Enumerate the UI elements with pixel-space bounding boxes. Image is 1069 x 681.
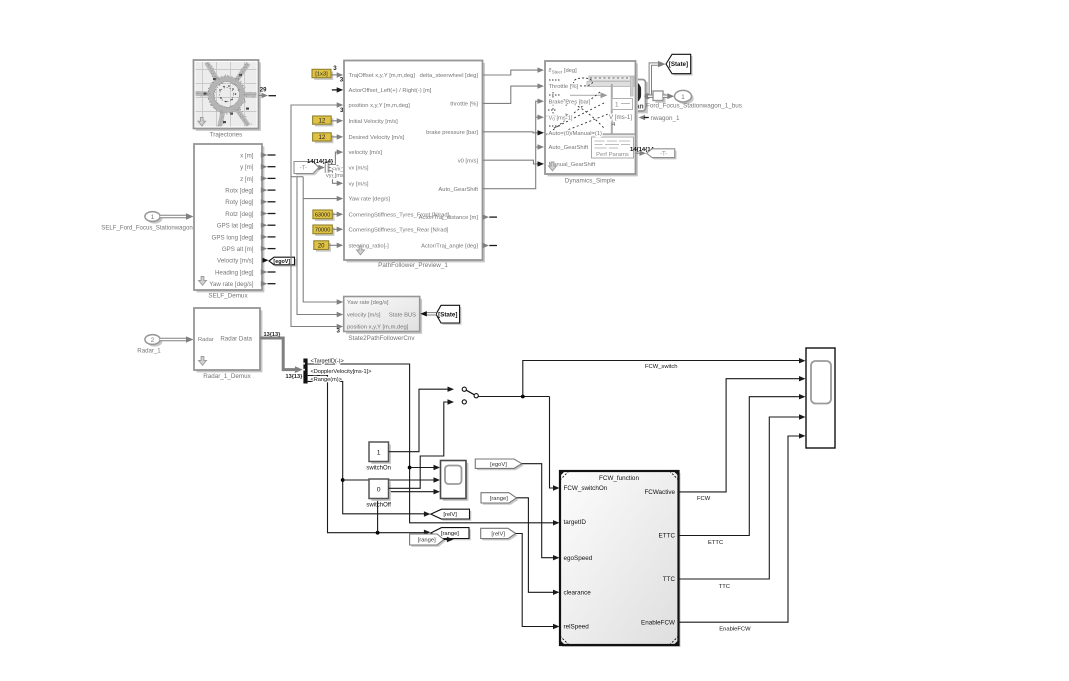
svg-text:clearance: clearance	[564, 590, 592, 597]
constant switchOff value 0	[371, 481, 391, 501]
junction TargetID to small scope	[408, 466, 412, 470]
small scope block	[443, 463, 469, 501]
Dynamics embedded legend box 1	[612, 99, 633, 110]
svg-text:SELF_Ford_Focus_Stationwagon: SELF_Ford_Focus_Stationwagon	[101, 225, 192, 232]
junction DopplerVelocity branch to small scope input 3	[376, 531, 380, 535]
svg-text:12: 12	[318, 117, 326, 124]
svg-text:GPS long [deg]: GPS long [deg]	[212, 234, 254, 241]
inport 2 Radar_1	[147, 337, 162, 347]
block Trajectories	[196, 62, 261, 130]
svg-text:Yaw rate [deg/s]: Yaw rate [deg/s]	[349, 197, 391, 203]
bus wire junction to conversion block	[648, 94, 653, 97]
svg-text:TrajOffset x,y,Y [m,m,deg]: TrajOffset x,y,Y [m,m,deg]	[349, 73, 416, 79]
wire FCW_switch to big scope input 1	[523, 361, 800, 397]
svg-text:[State]: [State]	[669, 61, 688, 68]
Dynamics embedded plot image	[587, 76, 634, 96]
svg-text:V [ms-1]: V [ms-1]	[609, 114, 632, 121]
svg-text:EnableFCW: EnableFCW	[641, 619, 675, 626]
svg-text:1: 1	[681, 94, 685, 101]
svg-text:GPS alt [m]: GPS alt [m]	[222, 246, 254, 253]
wire brake pressure to Dynamics	[483, 132, 539, 133]
svg-text:Desired Velocity [m/s]: Desired Velocity [m/s]	[349, 135, 405, 141]
constant 12 desired velocity	[315, 135, 334, 143]
svg-text:egoSpeed: egoSpeed	[564, 555, 593, 562]
dangling output Actor/Traj_distance	[482, 216, 485, 218]
bus wire Ford block to junction	[646, 64, 663, 96]
bus selector output DopplerVelocity wire	[308, 376, 425, 533]
svg-text:<Range(m)>: <Range(m)>	[311, 377, 342, 383]
constant 63000	[315, 212, 334, 221]
bus selector output Range wire	[308, 381, 425, 513]
svg-text:[relV]: [relV]	[443, 512, 457, 518]
wire throttle to Dynamics	[483, 86, 539, 103]
svg-text:Yaw rate [deg/s]: Yaw rate [deg/s]	[347, 300, 389, 306]
svg-text:Radar_1: Radar_1	[137, 348, 161, 355]
svg-text:Dynamics_Simple: Dynamics_Simple	[565, 178, 616, 185]
block Ford_Focus_Stationwagon_1 (partially hidden)	[602, 82, 648, 114]
junction Range branch to small scope input 2	[341, 478, 345, 482]
demux out to velocity input	[328, 152, 337, 164]
svg-text:Actor/Traj_distance [m]: Actor/Traj_distance [m]	[419, 215, 479, 221]
svg-text:1: 1	[151, 214, 155, 221]
svg-text:Velocity [m/s]: Velocity [m/s]	[217, 258, 254, 265]
block PathFollower_Preview_1	[346, 63, 485, 263]
svg-text:Initial Velocity [m/s]: Initial Velocity [m/s]	[349, 119, 399, 125]
signal conversion block	[655, 93, 665, 103]
svg-text:Auto_GearShift: Auto_GearShift	[438, 187, 478, 193]
bus wire State from-tag to State BUS input	[426, 312, 436, 315]
svg-text:[egoV]: [egoV]	[490, 462, 507, 468]
svg-text:1: 1	[377, 449, 381, 456]
wire Auto_GearShift to Dynamics	[483, 101, 539, 189]
svg-text:Actor/Traj_angle [deg]: Actor/Traj_angle [deg]	[421, 244, 478, 250]
constant 20	[316, 243, 331, 252]
Ford block flipped input dangling	[639, 115, 646, 120]
goto tag -T- right	[648, 151, 676, 160]
svg-text:12: 12	[318, 134, 326, 141]
svg-text:70000: 70000	[315, 227, 331, 233]
svg-text:ETTC: ETTC	[659, 533, 676, 540]
svg-text:Yaw rate [deg/s]: Yaw rate [deg/s]	[209, 281, 254, 288]
svg-text:targetID: targetID	[564, 519, 587, 526]
svg-text:Trajectories: Trajectories	[210, 132, 243, 139]
wire v0 to Dynamics	[483, 160, 539, 164]
wire FCWactive to scope, label FCW	[679, 379, 800, 492]
wire position x,y,Y to PathFollower and State2PathFollowerCnv	[291, 105, 338, 327]
constant switchOn value 1	[371, 444, 391, 464]
svg-text:v0 [m/s]: v0 [m/s]	[458, 158, 479, 164]
svg-text:GPS lat [deg]: GPS lat [deg]	[217, 223, 254, 230]
wire switch output	[478, 396, 549, 398]
bus selector bar	[303, 359, 307, 384]
FCW corner folds	[560, 471, 565, 476]
junction bus	[644, 93, 650, 99]
dangling wire ActorOffset	[332, 89, 338, 91]
svg-text:14{14{14}: 14{14{14}	[307, 159, 334, 165]
block Dynamics_Simple	[547, 63, 638, 176]
svg-text:δSteer [deg]: δSteer [deg]	[549, 68, 578, 74]
block SELF_Demux	[196, 146, 264, 292]
svg-text:<DopplerVelocity[ms-1]>: <DopplerVelocity[ms-1]>	[311, 369, 372, 375]
constant 70000	[315, 227, 334, 236]
svg-text:FCW_function: FCW_function	[599, 475, 639, 482]
svg-text:<TargetID(-)>: <TargetID(-)>	[311, 359, 344, 365]
svg-text:20: 20	[318, 243, 325, 249]
bus wire Radar Data to Bus Selector, dim 13{13}	[260, 338, 298, 370]
manual switch	[462, 387, 466, 391]
wire branch horizontal	[291, 176, 303, 178]
svg-text:Perf Params: Perf Params	[596, 152, 629, 158]
svg-text:position x,y,Y [m,m,deg]: position x,y,Y [m,m,deg]	[349, 103, 411, 109]
from tag egoV	[477, 461, 523, 470]
svg-text:Radar: Radar	[198, 337, 214, 343]
dangling arrow from range tag	[444, 539, 448, 541]
bus wire inport2 to Radar_1_Demux	[160, 338, 188, 341]
svg-text:Auto_GearShift: Auto_GearShift	[549, 145, 589, 151]
svg-text:nwagon_1: nwagon_1	[651, 115, 681, 122]
svg-text:PathFollower_Preview_1: PathFollower_Preview_1	[378, 262, 448, 269]
constant [1x3]	[314, 72, 333, 80]
svg-text:steering_ratio[-]: steering_ratio[-]	[349, 243, 390, 249]
svg-text:1: 1	[615, 101, 619, 108]
svg-text:ActorOffset_Left(+) / Right(-): ActorOffset_Left(+) / Right(-) [m]	[349, 88, 432, 94]
wire TTC to scope	[679, 417, 800, 579]
bus wire inport1 to SELF_Demux	[160, 215, 188, 218]
svg-text:Rotx [deg]: Rotx [deg]	[225, 188, 253, 195]
svg-text:2: 2	[151, 337, 155, 344]
svg-text:-T-: -T-	[300, 166, 307, 172]
svg-text:Throttle [%]: Throttle [%]	[549, 84, 579, 90]
wire relV to FCW relSpeed	[516, 534, 554, 627]
svg-text:V0 [ms-1]: V0 [ms-1]	[549, 115, 573, 121]
svg-text:EnableFCW: EnableFCW	[719, 627, 751, 633]
block FCW_function	[562, 473, 681, 647]
svg-text:Radar_1_Demux: Radar_1_Demux	[203, 373, 251, 380]
svg-text:13{13}: 13{13}	[264, 332, 282, 338]
big scope block	[806, 348, 835, 448]
block State2PathFollowerCnv	[346, 299, 422, 334]
svg-text:State BUS: State BUS	[389, 313, 416, 319]
svg-text:ETTC: ETTC	[708, 540, 723, 546]
wire switchOff to manual switch	[389, 402, 448, 488]
demux small	[327, 164, 330, 175]
svg-text:Ford_Focus_Stationwagon_1_bus: Ford_Focus_Stationwagon_1_bus	[646, 103, 742, 110]
wire delta_steerwheel to Dynamics	[483, 70, 539, 75]
goto tag range	[433, 529, 471, 540]
svg-text:[egoV]: [egoV]	[273, 259, 290, 265]
junction switch output	[521, 395, 525, 399]
svg-text:[range]: [range]	[441, 531, 459, 537]
svg-text:throttle [%]: throttle [%]	[450, 102, 478, 108]
svg-text:13{13}: 13{13}	[286, 374, 304, 380]
svg-text:TTC: TTC	[719, 584, 730, 590]
svg-text:3: 3	[333, 65, 337, 72]
demux out to vx input	[328, 167, 337, 169]
wire Dynamics to goto -T-	[636, 152, 641, 154]
svg-text:-T-: -T-	[660, 151, 667, 157]
svg-text:State2PathFollowerCnv: State2PathFollowerCnv	[348, 335, 415, 342]
wire switchOn to manual switch	[389, 389, 448, 452]
from tag range upper	[483, 495, 519, 505]
svg-text:FCW: FCW	[697, 496, 711, 502]
svg-text:Radar Data: Radar Data	[220, 335, 252, 342]
svg-text:TTC: TTC	[663, 576, 676, 583]
outport 1 Ford_Focus_Stationwagon_1_bus	[677, 93, 694, 105]
SELF_Demux output stubs	[262, 154, 263, 156]
dangling output Actor/Traj_angle	[482, 245, 485, 247]
svg-text:[1x3]: [1x3]	[315, 72, 328, 78]
svg-text:vx [m/s]: vx [m/s]	[349, 166, 369, 172]
inport 1 SELF_Ford_Focus_Stationwagon	[147, 214, 162, 224]
svg-text:FCWactive: FCWactive	[644, 489, 675, 496]
from tag -T-	[296, 163, 321, 175]
svg-text:0: 0	[377, 486, 381, 493]
svg-text:CorneringStiffness_Tyres_Rear: CorneringStiffness_Tyres_Rear [N/rad]	[349, 227, 449, 233]
svg-text:Heading [deg]: Heading [deg]	[215, 269, 254, 276]
svg-text:63000: 63000	[315, 212, 331, 218]
svg-text:[relV]: [relV]	[491, 532, 505, 538]
wire range to FCW clearance	[517, 498, 554, 593]
svg-text:relSpeed: relSpeed	[564, 624, 590, 631]
svg-text:[range]: [range]	[490, 496, 508, 502]
svg-text:Auto=(0)/Manual=(1): Auto=(0)/Manual=(1)	[549, 131, 603, 137]
svg-text:Brake Pres [bar]: Brake Pres [bar]	[549, 99, 591, 105]
wire -T- to demux	[319, 167, 320, 169]
from tag relV lower	[483, 530, 518, 540]
svg-text:29: 29	[260, 87, 267, 93]
svg-text:[range]: [range]	[418, 538, 436, 544]
from tag State (flipped)	[438, 307, 462, 325]
svg-text:vy [m/s]: vy [m/s]	[349, 181, 369, 187]
wire Yaw rate to PathFollower and State2	[303, 177, 337, 302]
wire velocity to State2	[297, 177, 337, 315]
Trajectories output port with signal dim 29	[259, 95, 263, 97]
wire egoV to FCW egoSpeed	[522, 464, 554, 558]
svg-text:FCW_switch: FCW_switch	[645, 364, 678, 370]
svg-text:switchOn: switchOn	[366, 466, 391, 472]
svg-text:SELF_Demux: SELF_Demux	[208, 293, 248, 300]
svg-text:velocity [m/s]: velocity [m/s]	[349, 150, 383, 156]
Dynamics embedded Perf Params thumbnail	[592, 137, 634, 158]
constant 12 initial velocity	[315, 118, 334, 126]
wire ETTC to scope	[679, 397, 800, 536]
goto tag egoV	[271, 259, 297, 267]
svg-text:FCW_switchOn: FCW_switchOn	[564, 485, 608, 492]
demux out to vy input	[328, 171, 337, 184]
wire switch to FCW_switchOn	[550, 397, 554, 489]
bus wire conversion to outport 1	[663, 94, 670, 97]
svg-text:y [m]: y [m]	[240, 164, 254, 171]
bus selector output TargetID wire	[308, 364, 554, 523]
svg-text:switchOff: switchOff	[366, 503, 391, 509]
svg-text:velocity [m/s]: velocity [m/s]	[347, 313, 381, 319]
svg-text:Roty [deg]: Roty [deg]	[225, 199, 253, 206]
wire EnableFCW to scope	[679, 436, 800, 622]
goto tag State	[668, 56, 693, 75]
svg-text:z [m]: z [m]	[240, 176, 254, 183]
svg-text:Rotz [deg]: Rotz [deg]	[225, 211, 253, 218]
svg-text:3: 3	[337, 327, 341, 334]
svg-text:[State]: [State]	[438, 311, 457, 318]
svg-text:delta_steerwheel [deg]: delta_steerwheel [deg]	[420, 73, 479, 79]
from tag range lower-left	[411, 536, 445, 547]
svg-text:position x,y,Y [m,m,deg]: position x,y,Y [m,m,deg]	[347, 325, 409, 331]
block Radar_1_Demux	[196, 310, 262, 372]
svg-text:brake pressure [bar]: brake pressure [bar]	[426, 130, 478, 136]
svg-text:x [m]: x [m]	[240, 152, 254, 159]
goto tag relV	[433, 511, 472, 521]
